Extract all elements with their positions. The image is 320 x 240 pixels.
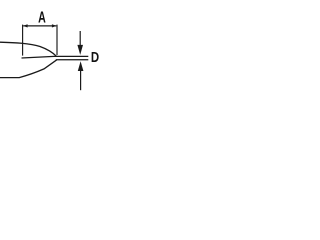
lead wire top edge — [22, 56, 89, 58]
svg-text:D: D — [91, 49, 99, 66]
dimension A left arrowhead — [23, 24, 28, 27]
dimension D lower arrow shaft — [80, 71, 82, 91]
extension line left — [22, 25, 24, 56]
svg-text:A: A — [38, 9, 46, 27]
body outline top curve — [0, 42, 57, 56]
lead wire bottom edge — [56, 59, 89, 61]
dimension D upper arrowhead — [77, 45, 83, 55]
dimension A right arrowhead — [52, 24, 57, 27]
dimension D upper arrow shaft — [79, 31, 81, 46]
dimension A line — [23, 25, 56, 27]
dimension D lower arrowhead — [78, 61, 84, 71]
extension line right — [56, 25, 58, 55]
body outline bottom curve — [0, 60, 57, 78]
